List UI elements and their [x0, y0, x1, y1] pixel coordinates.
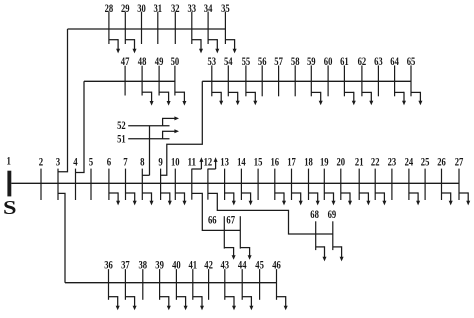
svg-text:7: 7: [123, 156, 128, 168]
svg-text:23: 23: [388, 156, 397, 168]
svg-text:25: 25: [421, 156, 430, 168]
svg-text:18: 18: [304, 156, 313, 168]
svg-text:41: 41: [189, 260, 198, 272]
svg-text:51: 51: [117, 134, 126, 146]
svg-text:10: 10: [171, 156, 180, 168]
svg-text:4: 4: [73, 156, 78, 168]
svg-text:29: 29: [121, 3, 130, 15]
svg-text:21: 21: [355, 156, 364, 168]
svg-text:9: 9: [158, 156, 163, 168]
svg-text:53: 53: [208, 56, 217, 68]
svg-text:61: 61: [340, 56, 349, 68]
svg-text:32: 32: [171, 3, 180, 15]
svg-text:11: 11: [188, 156, 197, 168]
svg-text:33: 33: [188, 3, 197, 15]
svg-text:20: 20: [337, 156, 346, 168]
svg-text:49: 49: [155, 56, 164, 68]
svg-text:17: 17: [287, 156, 296, 168]
svg-text:38: 38: [139, 260, 148, 272]
svg-text:1: 1: [7, 156, 12, 168]
svg-text:44: 44: [238, 260, 247, 272]
svg-text:31: 31: [154, 3, 163, 15]
svg-text:24: 24: [405, 156, 414, 168]
svg-text:5: 5: [89, 156, 94, 168]
svg-text:56: 56: [258, 56, 267, 68]
svg-text:12: 12: [204, 156, 213, 168]
svg-text:69: 69: [328, 209, 337, 221]
svg-text:48: 48: [138, 56, 147, 68]
svg-text:43: 43: [221, 260, 230, 272]
svg-text:50: 50: [171, 56, 180, 68]
svg-text:26: 26: [437, 156, 446, 168]
svg-text:37: 37: [121, 260, 130, 272]
svg-text:3: 3: [56, 156, 61, 168]
svg-text:34: 34: [204, 3, 213, 15]
svg-text:39: 39: [155, 260, 164, 272]
svg-text:65: 65: [407, 56, 416, 68]
svg-text:14: 14: [237, 156, 246, 168]
svg-text:22: 22: [371, 156, 380, 168]
svg-text:47: 47: [121, 56, 130, 68]
svg-text:42: 42: [204, 260, 213, 272]
svg-text:35: 35: [221, 3, 230, 15]
svg-text:45: 45: [255, 260, 264, 272]
svg-text:15: 15: [254, 156, 263, 168]
svg-text:16: 16: [271, 156, 280, 168]
svg-text:58: 58: [291, 56, 300, 68]
svg-text:52: 52: [117, 120, 126, 132]
svg-text:28: 28: [105, 3, 114, 15]
svg-text:66: 66: [208, 215, 217, 227]
svg-text:62: 62: [358, 56, 367, 68]
svg-text:8: 8: [140, 156, 145, 168]
svg-text:13: 13: [220, 156, 229, 168]
svg-text:68: 68: [310, 209, 319, 221]
svg-text:64: 64: [390, 56, 399, 68]
svg-text:59: 59: [307, 56, 316, 68]
svg-text:67: 67: [226, 215, 235, 227]
svg-text:2: 2: [39, 156, 44, 168]
svg-text:57: 57: [274, 56, 283, 68]
svg-text:54: 54: [224, 56, 233, 68]
svg-text:30: 30: [137, 3, 146, 15]
svg-text:55: 55: [242, 56, 251, 68]
svg-text:60: 60: [324, 56, 333, 68]
svg-text:46: 46: [272, 260, 281, 272]
svg-text:S: S: [3, 197, 16, 219]
svg-text:40: 40: [172, 260, 181, 272]
svg-text:19: 19: [320, 156, 329, 168]
svg-text:6: 6: [107, 156, 112, 168]
svg-text:27: 27: [455, 156, 464, 168]
svg-text:63: 63: [374, 56, 383, 68]
svg-text:36: 36: [104, 260, 113, 272]
